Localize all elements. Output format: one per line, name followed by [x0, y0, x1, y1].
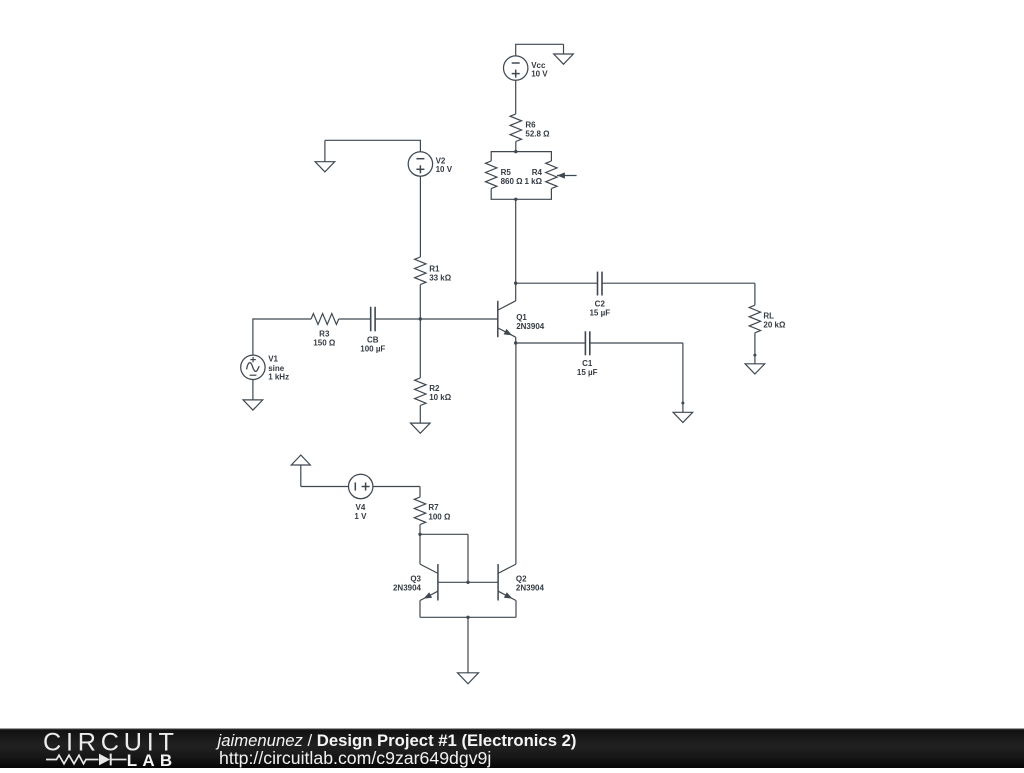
svg-text:10 kΩ: 10 kΩ	[429, 393, 452, 402]
CircuitLab logo text LAB	[127, 751, 178, 770]
svg-text:R5: R5	[501, 168, 512, 177]
svg-text:C2: C2	[595, 300, 606, 309]
wire C1 to ground	[590, 343, 683, 412]
wiper arrow of R4	[557, 172, 577, 178]
ground (mirror)	[458, 673, 479, 684]
capacitor C2	[598, 272, 603, 296]
ground (V2)	[315, 162, 335, 172]
label Vcc 10 V	[531, 61, 548, 79]
label V1 sine 1 kHz	[268, 354, 289, 381]
wire R1 to base node	[419, 285, 421, 319]
resistor R2	[415, 378, 426, 406]
ground (Vcc)	[554, 54, 574, 64]
footer title line	[216, 731, 577, 750]
svg-text:C1: C1	[582, 359, 593, 368]
svg-text:CB: CB	[367, 335, 379, 344]
wire Q2 emitter down	[515, 601, 517, 618]
svg-text:R6: R6	[525, 121, 536, 130]
terminal +V arrow	[291, 455, 310, 487]
transistor Q3	[420, 564, 438, 600]
svg-text:R4: R4	[532, 168, 543, 177]
label R4 1 kOhm	[524, 168, 542, 186]
svg-text:R3: R3	[319, 330, 330, 339]
svg-text:150 Ω: 150 Ω	[313, 338, 336, 347]
wire node B to collector node	[515, 199, 517, 283]
svg-text:20 kΩ: 20 kΩ	[763, 320, 786, 329]
wire Vcc to R6	[515, 80, 517, 114]
label Q2 2N3904	[516, 575, 545, 593]
svg-text:Q3: Q3	[410, 575, 421, 584]
label R6 52.8 Ohm	[525, 121, 550, 139]
svg-text:1 V: 1 V	[354, 512, 367, 521]
svg-text:1 kΩ: 1 kΩ	[524, 177, 542, 186]
wire box top rail	[491, 151, 551, 153]
ground (C1)	[673, 412, 693, 422]
svg-text:33 kΩ: 33 kΩ	[429, 274, 452, 283]
wire Q1 emitter to Q2 collector	[515, 343, 517, 564]
resistor R5	[486, 161, 497, 189]
CircuitLab logo resistor-diode glyph	[46, 754, 127, 766]
label Q1 2N3904	[516, 313, 545, 331]
capacitor C1	[585, 331, 589, 355]
svg-text:15 µF: 15 µF	[577, 368, 598, 377]
label R3 150 Ohm	[313, 330, 336, 348]
wire RL to ground	[754, 333, 756, 364]
resistor R3	[311, 314, 339, 325]
node base rail (junction dot)	[466, 581, 469, 584]
node collector (junction dot)	[514, 282, 517, 285]
node base (junction dot)	[419, 317, 422, 320]
label C2 15 uF	[589, 300, 610, 318]
resistor R6	[510, 114, 521, 142]
wire R5 bottom lead	[490, 189, 492, 200]
svg-text:15 µF: 15 µF	[589, 309, 610, 318]
svg-text:2N3904: 2N3904	[516, 322, 545, 331]
wire R2 to ground	[419, 406, 421, 424]
svg-text:Q2: Q2	[516, 575, 527, 584]
svg-text:2N3904: 2N3904	[393, 583, 422, 592]
wire R5 top lead	[490, 151, 492, 161]
potentiometer R4	[546, 161, 557, 189]
wire collector node to Q1	[515, 283, 517, 301]
wire R3 to CB	[339, 318, 371, 320]
svg-text:sine: sine	[268, 364, 285, 373]
svg-text:LAB: LAB	[127, 751, 178, 768]
wire emitter rail to ground	[467, 617, 469, 673]
wire input left	[253, 318, 311, 355]
svg-text:RL: RL	[763, 311, 774, 320]
label RL 20 kOhm	[763, 311, 786, 329]
node C1 ground (dot)	[681, 402, 684, 405]
voltage source Vcc	[504, 56, 528, 80]
node emitter (junction dot)	[514, 341, 517, 344]
svg-text:V2: V2	[436, 157, 446, 166]
node mirror top (junction dot)	[418, 533, 421, 536]
label Q3 2N3904	[393, 575, 422, 593]
wire R6 to node A	[515, 142, 517, 152]
transistor Q1	[498, 301, 516, 337]
node RL ground (dot)	[753, 354, 756, 357]
svg-text:10 V: 10 V	[531, 69, 548, 78]
footer bar background	[0, 728, 1024, 768]
capacitor CB	[371, 307, 375, 332]
ground (RL)	[745, 364, 765, 374]
wire base node to R2	[419, 319, 421, 378]
node B (junction dot bottom of box)	[514, 198, 517, 201]
svg-text:1 kHz: 1 kHz	[268, 373, 289, 382]
label C1 15 uF	[577, 359, 598, 377]
svg-text:http://circuitlab.com/c9zar649: http://circuitlab.com/c9zar649dgv9j	[219, 748, 491, 768]
wire terminal to V4	[301, 486, 349, 488]
ground (R2)	[411, 423, 431, 433]
wire collector to C2	[516, 282, 598, 284]
CircuitLab logo text CIRCUIT	[43, 729, 179, 757]
label R1 33 kOhm	[429, 265, 452, 283]
svg-text:100 Ω: 100 Ω	[428, 512, 451, 521]
resistor R1	[415, 257, 426, 285]
svg-text:860 Ω: 860 Ω	[501, 177, 524, 186]
voltage source V2	[408, 152, 432, 176]
svg-text:R1: R1	[429, 265, 440, 274]
label V2 10 V	[436, 157, 453, 175]
wire C2 to RL	[602, 283, 755, 305]
wire emitter to C1	[516, 342, 586, 344]
footer url line	[219, 748, 491, 768]
svg-text:10 V: 10 V	[436, 165, 453, 174]
wire R4 bottom lead	[550, 189, 552, 200]
svg-text:100 µF: 100 µF	[360, 344, 385, 353]
node A (junction dot top of box)	[514, 150, 517, 153]
svg-text:R7: R7	[428, 503, 439, 512]
wire emitter rail	[420, 616, 516, 618]
transistor Q2	[498, 564, 516, 600]
wire box bottom rail	[491, 198, 551, 200]
voltage source V4	[349, 474, 373, 498]
label CB 100 uF	[360, 335, 385, 353]
wire base rail	[438, 581, 498, 583]
resistor RL	[749, 305, 760, 333]
svg-text:2N3904: 2N3904	[516, 584, 545, 593]
wire R4 top lead	[550, 151, 552, 161]
svg-text:Q1: Q1	[516, 313, 527, 322]
label R5 860 Ohm	[501, 168, 524, 186]
svg-text:R2: R2	[429, 384, 440, 393]
label R7 100 Ohm	[428, 503, 451, 521]
ground (V1)	[243, 400, 263, 410]
label R2 10 kOhm	[429, 384, 452, 402]
wire V1 to ground	[252, 380, 254, 400]
label V4 1 V	[354, 503, 367, 521]
voltage source V1 sine	[241, 355, 265, 379]
resistor R7	[414, 497, 425, 525]
svg-text:V1: V1	[268, 354, 278, 363]
wire mirror node to Q3 collector	[419, 534, 421, 564]
wire Q3 emitter down	[419, 601, 421, 618]
wire mirror node to base rail	[420, 534, 468, 582]
wire V2 top to ground	[325, 140, 421, 161]
wire R7 to mirror node	[419, 525, 421, 535]
wire V2 to R1	[419, 176, 421, 257]
node emitter rail (junction dot)	[466, 616, 469, 619]
wire Q1 emitter to node	[515, 337, 517, 343]
wire Vcc top to ground	[515, 44, 563, 56]
wire base node to Q1 base	[420, 318, 498, 320]
wire V4 to R7	[373, 487, 420, 498]
svg-text:52.8 Ω: 52.8 Ω	[525, 130, 550, 139]
wire CB to base node	[375, 318, 420, 320]
